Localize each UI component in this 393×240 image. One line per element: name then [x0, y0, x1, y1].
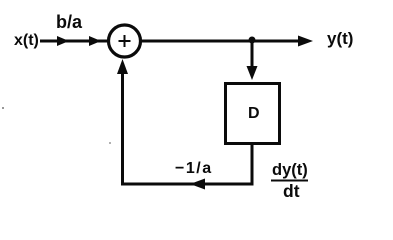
svg-text:dy(t): dy(t)	[272, 161, 308, 179]
svg-text:b/a: b/a	[56, 12, 83, 32]
svg-text:dt: dt	[283, 181, 300, 201]
svg-text:x(t): x(t)	[14, 32, 39, 49]
svg-text:−1/a: −1/a	[175, 160, 213, 177]
svg-text:y(t): y(t)	[327, 29, 353, 48]
svg-text:D: D	[248, 105, 260, 122]
